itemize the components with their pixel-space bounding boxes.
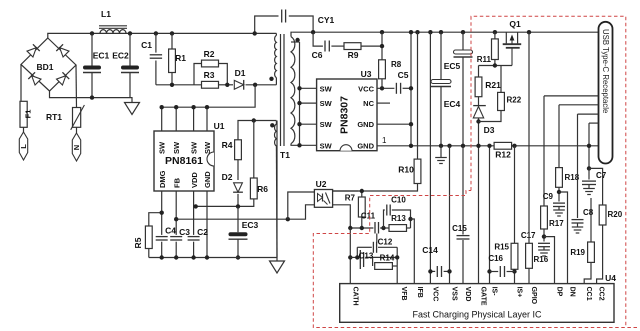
svg-text:SW: SW [320, 120, 333, 129]
svg-text:C5: C5 [398, 70, 409, 80]
svg-text:DN: DN [569, 287, 576, 297]
wire vfb rail [396, 247, 398, 283]
pin label SW (U1-3) [190, 141, 199, 154]
pin label SW (U3) y145.3 [320, 141, 333, 150]
node EC5 bus [461, 144, 465, 148]
node R10 top [415, 30, 419, 34]
node CY1 right [311, 30, 315, 34]
pin label SW (U1-4) [203, 141, 212, 154]
pin label GATE (U4) [480, 287, 487, 306]
label R4 [222, 140, 233, 150]
pin label CATH (U4) [351, 287, 358, 306]
label C12 [378, 238, 393, 247]
wire C6 to R9 [331, 45, 344, 47]
terminal L [19, 127, 27, 160]
svg-text:SW: SW [320, 84, 333, 93]
wire IS+ column [514, 146, 516, 244]
pin label VCC (U4) [431, 287, 438, 302]
node DMG link [160, 211, 164, 215]
svg-text:GND: GND [357, 141, 374, 150]
resistor R1 [169, 49, 176, 73]
label R6 [257, 184, 268, 194]
diode D1 [234, 80, 243, 90]
resistor R16 [526, 243, 533, 268]
svg-text:R6: R6 [257, 184, 268, 194]
svg-text:R3: R3 [204, 70, 215, 80]
node VDD bus [194, 204, 198, 208]
wire EC1 riser [91, 33, 93, 97]
wire CY1 left lead [255, 16, 279, 33]
wire R19 lower column [590, 198, 592, 242]
node IS+ bus [512, 144, 516, 148]
svg-text:EC4: EC4 [444, 99, 461, 109]
wire R18 column [558, 105, 560, 168]
svg-text:R17: R17 [549, 219, 564, 228]
node C16 left [487, 269, 491, 273]
resistor R7 [358, 197, 365, 217]
svg-text:RT1: RT1 [46, 112, 62, 122]
svg-text:EC2: EC2 [112, 51, 129, 61]
polarity dot secondary [295, 38, 299, 42]
svg-text:IS+: IS+ [516, 287, 523, 298]
node C3 bottom [174, 255, 178, 259]
svg-text:C11: C11 [361, 212, 376, 221]
bridge rectifier BD1 [21, 38, 76, 91]
wire VCC line [377, 87, 411, 89]
resistor R11 [492, 39, 499, 60]
label R9 [348, 50, 359, 60]
capacitor EC3 [229, 232, 248, 239]
thermistor RT1 [71, 105, 85, 130]
pin label SW (U1-1) [158, 141, 167, 154]
label D3 [484, 125, 495, 135]
wire R11 column [494, 32, 496, 65]
svg-text:C16: C16 [488, 254, 503, 263]
svg-text:R11: R11 [477, 55, 492, 64]
USB Type-C receptacle [599, 22, 613, 164]
label R2 [204, 49, 215, 59]
capacitor C9 [553, 203, 565, 206]
label EC4 [444, 99, 461, 109]
label R8 [391, 60, 402, 69]
wire D1 to SW node [246, 84, 277, 86]
pin label GND U1 [203, 171, 212, 188]
label R18 [565, 173, 580, 182]
svg-text:R9: R9 [348, 50, 359, 60]
red dashed region boundaries [313, 16, 637, 327]
svg-text:FB: FB [172, 177, 181, 188]
svg-text:SW: SW [320, 99, 333, 108]
svg-text:DMG: DMG [158, 170, 167, 188]
capacitor C17 [538, 243, 550, 246]
resistor R4 [235, 140, 242, 160]
svg-text:C15: C15 [452, 224, 467, 233]
wire R13 right [407, 227, 411, 229]
svg-text:L: L [19, 144, 28, 149]
svg-text:R2: R2 [204, 49, 215, 59]
node R1 top [170, 31, 174, 35]
label C5 [398, 70, 409, 80]
pin label VCC [358, 84, 374, 93]
node C17 [542, 234, 546, 238]
IC U3 PN8307 box [317, 79, 377, 151]
ground C17 [538, 247, 550, 256]
wire secondary col top link [291, 41, 300, 43]
pin label SW (U1-2) [172, 141, 181, 154]
pin label SW (U3) y103.1 [320, 99, 333, 108]
label C14 [422, 245, 438, 255]
wire R6 column [253, 121, 255, 179]
label R19 [570, 248, 585, 257]
node EC5 top [461, 30, 465, 34]
wire VDD lead [193, 191, 195, 258]
label USB Type-C Receptacle [601, 29, 610, 113]
node CY1 left [253, 31, 257, 35]
label F1 [24, 110, 33, 119]
node C10 branch [381, 226, 385, 230]
node R11 bottom [493, 63, 497, 67]
resistor R8 [379, 60, 386, 79]
ground triangle secondary [270, 258, 285, 274]
svg-text:C13: C13 [359, 252, 374, 261]
svg-text:U4: U4 [605, 273, 616, 283]
label U3 [361, 69, 372, 79]
label C10 [391, 196, 406, 205]
node bus 411 [409, 144, 413, 148]
resistor R12 [494, 142, 512, 149]
pin label VDD [190, 172, 199, 188]
node C13 left [348, 255, 352, 259]
label R17 [549, 219, 564, 228]
node C16 right [512, 269, 516, 273]
T1 primary coil [275, 33, 277, 84]
label C9 [543, 192, 554, 201]
wire R7 top [361, 191, 363, 197]
pin number 1 [382, 136, 387, 145]
label R10 [398, 165, 414, 175]
resistor R5 [145, 226, 152, 249]
node D2 EC3 junction [236, 204, 240, 208]
svg-text:USB Type-C Receptacle: USB Type-C Receptacle [601, 29, 610, 113]
svg-text:SW: SW [190, 141, 199, 154]
wire R19 to CC1 [584, 262, 591, 283]
optocoupler U2 [314, 190, 332, 208]
wire C8 column [577, 114, 579, 218]
wire SW tap1 [300, 87, 317, 89]
label U1 [214, 121, 225, 131]
svg-text:SW: SW [203, 141, 212, 154]
node C4 bottom [160, 255, 164, 259]
svg-text:R7: R7 [345, 194, 356, 203]
wire R14 riser [372, 257, 374, 266]
ground C8 [572, 223, 583, 233]
wire VSS column [449, 146, 451, 284]
wire C10 right [392, 210, 411, 228]
wire DMG lead [161, 191, 163, 258]
wire GATE column [478, 122, 480, 284]
node R19 bus [587, 144, 591, 148]
wire L1 section [0, 0, 1, 1]
label C7 [596, 171, 607, 180]
node D3 bottom [476, 119, 480, 123]
wire GND lead U1 [206, 191, 208, 258]
wire R1 column [171, 33, 173, 84]
ground triangle left [125, 103, 140, 115]
svg-text:VDD: VDD [464, 287, 471, 302]
label R12 [495, 150, 511, 160]
label U2 [316, 179, 327, 189]
label C6 [312, 50, 323, 60]
node IFB branch [408, 217, 412, 221]
zener D3 [473, 101, 486, 122]
capacitor CY1 [282, 10, 286, 23]
capacitor C4 [156, 237, 168, 240]
node R1 bottom [170, 83, 174, 87]
IC U1 PN8161 box [154, 131, 214, 191]
label BD1 [36, 62, 53, 72]
svg-text:DP: DP [556, 287, 563, 297]
node SW bus 3 [191, 105, 195, 109]
wire C7 stub [588, 168, 590, 179]
wire R22 column [479, 66, 502, 122]
notch U3 [340, 145, 352, 151]
fuse F1 [20, 101, 27, 127]
label EC3 [242, 220, 259, 230]
svg-text:L1: L1 [101, 9, 111, 19]
wire U2 BR elbow [333, 205, 351, 228]
wire EC5 column [462, 32, 464, 146]
svg-text:SW: SW [172, 141, 181, 154]
svg-text:GND: GND [357, 120, 374, 129]
label R16 [534, 255, 549, 264]
svg-text:R22: R22 [507, 96, 522, 105]
notch U1 [207, 152, 214, 166]
node secondary bottom [297, 143, 301, 147]
capacitor C11 [375, 222, 379, 234]
svg-text:PN8307: PN8307 [339, 96, 351, 134]
svg-text:C7: C7 [596, 171, 607, 180]
label C8 [583, 208, 594, 217]
svg-text:R16: R16 [534, 255, 549, 264]
label R3 [204, 70, 215, 80]
wire top rail primary [48, 33, 277, 38]
resistor R10 [414, 159, 421, 183]
wire C16 leads [490, 271, 515, 273]
wire R21 column [478, 66, 480, 78]
wire R20 jog [589, 168, 603, 205]
wire fb node line [350, 227, 373, 229]
svg-text:C9: C9 [543, 192, 554, 201]
node FB line [174, 217, 178, 221]
svg-text:R12: R12 [495, 150, 511, 160]
pin label IFB (U4) [416, 287, 423, 298]
wire R17 column [543, 96, 545, 206]
wire R5 bottom [148, 249, 150, 258]
wire IS- column [489, 146, 491, 284]
svg-text:C6: C6 [312, 50, 323, 60]
capacitor EC1 [83, 66, 101, 73]
node C2 bottom [191, 255, 195, 259]
node EC3 bottom [236, 255, 240, 259]
svg-text:1: 1 [382, 136, 387, 145]
svg-text:R21: R21 [485, 80, 501, 90]
node C14 left [428, 269, 432, 273]
ground C7 [583, 185, 595, 195]
svg-text:C12: C12 [378, 238, 393, 247]
pin label DP (U4) [556, 287, 563, 297]
svg-text:BD1: BD1 [36, 62, 53, 72]
label Fast Charging Physical Layer IC [412, 310, 542, 320]
pin label VFB (U4) [400, 287, 407, 301]
node C14 right [447, 269, 451, 273]
wire R14 right [392, 265, 397, 267]
node SW tap2 [297, 101, 301, 105]
wire GND2 lead [377, 123, 411, 125]
wire D2 to VDD bus [237, 194, 239, 206]
wire C10 branch [384, 210, 385, 228]
svg-text:C4: C4 [165, 226, 176, 236]
svg-text:R14: R14 [380, 254, 395, 263]
svg-text:D3: D3 [484, 125, 495, 135]
wire U2 TR to R7 [333, 190, 359, 192]
capacitor C10 [387, 205, 390, 216]
svg-text:VDD: VDD [190, 172, 199, 188]
label N [72, 145, 81, 150]
node SW drain [253, 83, 257, 87]
svg-text:N: N [72, 145, 81, 150]
wire VCC column [429, 32, 431, 283]
node VCC col top [428, 30, 432, 34]
node R7 fb [360, 226, 364, 230]
svg-text:Fast Charging Physical Layer I: Fast Charging Physical Layer IC [412, 310, 542, 320]
label C4 [165, 226, 176, 236]
terminal N [72, 127, 80, 161]
wire U2 top-left riser [288, 192, 315, 219]
label D2 [222, 172, 233, 182]
resistor R2 [202, 60, 219, 67]
transformer T1 core [281, 34, 285, 146]
resistor R19 [588, 242, 595, 262]
label T1 [280, 150, 290, 160]
pin label DN (U4) [569, 287, 576, 297]
wire capsule stub R17 [544, 95, 599, 97]
node C7 junction [587, 166, 591, 170]
label RT1 [46, 112, 62, 122]
diode D2 [233, 183, 243, 192]
wire DP jog [544, 237, 555, 284]
node C9 [557, 190, 561, 194]
capacitor C13 [360, 250, 363, 269]
label R7 [345, 194, 356, 203]
T1 aux winding [274, 121, 277, 258]
node D1 left [225, 83, 229, 87]
capacitor C1 [150, 55, 162, 58]
label R15 [494, 243, 509, 252]
node cath rail [348, 226, 352, 230]
wire R8 column [381, 32, 383, 60]
wire R16 to pin [528, 268, 530, 283]
capacitor C7 [582, 181, 596, 184]
label C15 [452, 224, 467, 233]
node Q1 VBUS left [493, 30, 497, 34]
label C2 [197, 227, 208, 237]
ground below bus [435, 146, 447, 164]
wire IFB jog [411, 219, 415, 284]
wire C11 to R13 [380, 227, 389, 229]
wire EC3 column [237, 206, 239, 257]
svg-text:GATE: GATE [480, 287, 487, 306]
capacitor C15 [457, 236, 470, 239]
node L1 left [90, 31, 94, 35]
label R21 [485, 80, 501, 90]
label EC1 [93, 51, 110, 61]
wire R18 to C9 [558, 187, 560, 201]
capacitor C5 [396, 83, 400, 94]
wire secondary gnd bus [377, 145, 600, 147]
svg-text:R13: R13 [391, 214, 406, 223]
label R14 [380, 254, 395, 263]
wire R6 bottom [196, 199, 254, 207]
node C1 top [154, 31, 158, 35]
wire R9 to R8 col [361, 45, 382, 47]
wire C1 column [155, 33, 157, 84]
svg-text:CATH: CATH [351, 287, 358, 306]
label C1 [141, 40, 152, 50]
wire snubber line [156, 84, 202, 86]
resistor R14 [375, 263, 393, 270]
wire bottom bus secondary gnd [149, 257, 277, 259]
node R8 bottom [380, 86, 384, 90]
label C17 [521, 231, 536, 240]
node R8 top [380, 30, 384, 34]
label C16 [488, 254, 503, 263]
wire C13 line [350, 256, 397, 258]
pin label GPIO (U4) [530, 287, 537, 305]
node SW tap3 [297, 122, 301, 126]
capacitor C3 [170, 237, 182, 240]
inductor L1 [99, 26, 127, 34]
pin label GND2 [357, 120, 374, 129]
svg-text:VCC: VCC [358, 84, 374, 93]
svg-text:IS-: IS- [491, 287, 498, 297]
node U2 riser [286, 217, 290, 221]
wire U1 SW pin 3 lead [193, 107, 195, 131]
wire C12 left riser [356, 247, 358, 257]
label R13 [391, 214, 406, 223]
wire EC2 riser [129, 33, 131, 97]
wire C15 column [462, 146, 464, 284]
pin label CC2 (U4) [598, 287, 605, 301]
wire SW tap3 [300, 123, 317, 125]
svg-text:C14: C14 [422, 245, 438, 255]
label C3 [179, 227, 190, 237]
IC U4 box [340, 284, 614, 323]
wire C11-C12 stub [376, 234, 378, 243]
resistor R13 [389, 225, 407, 232]
wire R10 column [417, 32, 419, 159]
pin label FB [172, 177, 181, 188]
node 411 GND2 [409, 122, 413, 126]
svg-text:R20: R20 [608, 210, 623, 219]
label CY1 [318, 15, 335, 25]
svg-text:D1: D1 [235, 68, 246, 78]
svg-text:U1: U1 [214, 121, 225, 131]
wire R8 to VCC line [381, 79, 383, 89]
svg-text:PN8161: PN8161 [165, 155, 203, 167]
wire U1 SW pin 4 lead [206, 107, 208, 131]
wire R2 loop [194, 64, 227, 85]
capacitor EC2 [121, 66, 139, 73]
